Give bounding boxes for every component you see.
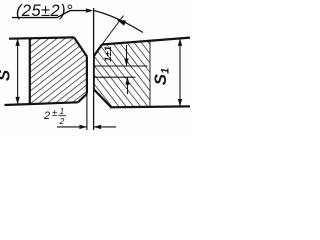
leader arrow	[86, 8, 94, 12]
svg-text:2: 2	[59, 116, 65, 126]
arrow S up	[15, 38, 19, 46]
svg-text:1±1: 1±1	[103, 46, 114, 62]
right plate right end (break)	[149, 41, 151, 108]
right plate top bevel	[94, 45, 102, 57]
angle arc	[94, 11, 143, 33]
arrow S down	[15, 97, 19, 105]
left plate top bevel	[74, 37, 87, 56]
svg-text:S: S	[0, 69, 14, 81]
root height dim line lower	[127, 77, 129, 94]
arrow gap right-pointing	[79, 125, 87, 129]
left plate left edge	[29, 38, 31, 104]
root height dim: upper extension line	[94, 65, 148, 67]
left root face extension line down	[86, 94, 88, 130]
root height dim: lower extension line	[94, 76, 136, 78]
left plate bottom bevel	[78, 94, 87, 103]
right plate bottom bevel	[94, 90, 111, 108]
right plate top edge (with extension)	[102, 38, 190, 45]
arrow root height down	[124, 59, 128, 67]
gap dim line right	[94, 126, 116, 128]
left plate top edge (with extension)	[9, 37, 74, 38]
arrow S1 down	[178, 99, 182, 107]
right plate root face	[93, 56, 95, 90]
svg-text:1: 1	[60, 106, 65, 116]
root height dim line upper	[126, 45, 128, 66]
svg-text:S1: S1	[151, 68, 172, 85]
svg-text:2: 2	[43, 110, 50, 122]
angle label underline / leader	[12, 11, 89, 18]
right plate bottom edge (with extension)	[110, 105, 190, 108]
arrow root height up	[125, 77, 129, 85]
dimension S1 line	[179, 38, 181, 106]
left plate root face	[86, 57, 88, 94]
right plate hatching	[94, 41, 150, 108]
svg-text:±: ±	[52, 108, 58, 119]
right plate bevel extension line	[102, 16, 124, 45]
left plate bottom edge (with extension)	[5, 102, 79, 105]
arc arrow on bevel line	[115, 17, 126, 26]
gap dim line left	[57, 126, 87, 128]
arrow gap left-pointing	[94, 125, 102, 129]
dimension S line	[17, 38, 19, 104]
centre vertical extension line (root face / gap)	[93, 8, 95, 130]
left plate hatching	[30, 38, 88, 105]
arrow S1 up	[178, 38, 182, 46]
